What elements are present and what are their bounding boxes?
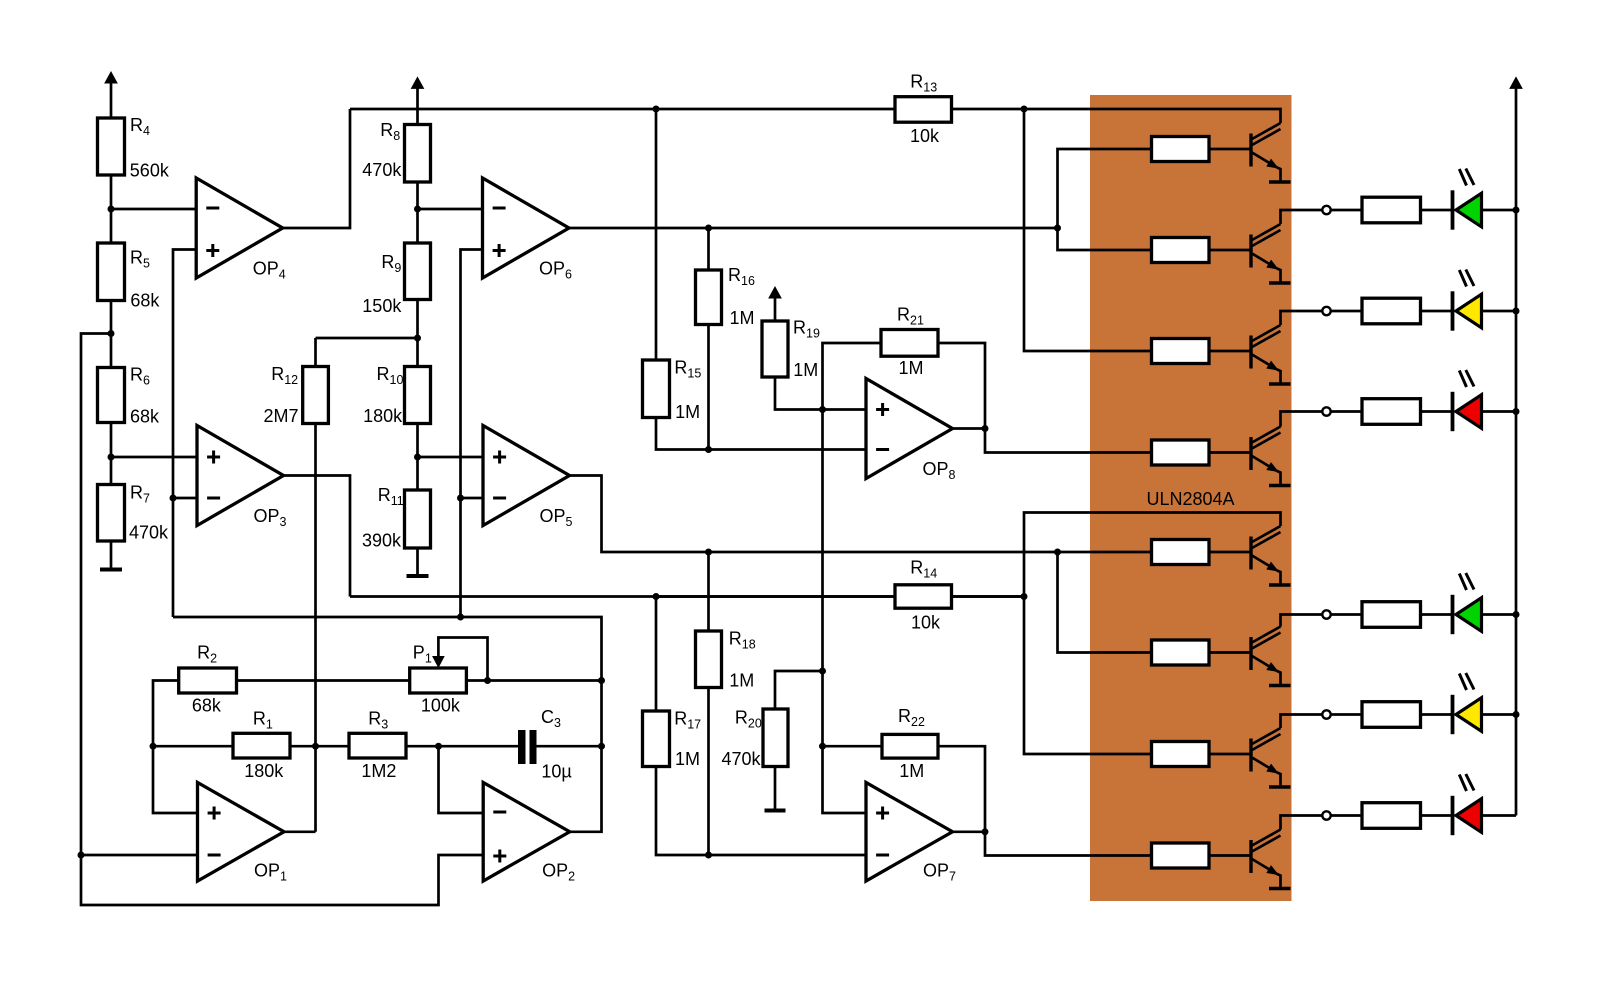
wire OP6 output to ULN inputs 1-2 [569,227,1058,230]
wire R18 top lead [707,552,710,631]
resistor R12 [264,364,329,426]
wire resistor to LED 6 [1421,814,1452,817]
svg-text:2M7: 2M7 [264,406,299,426]
power supply arrow above R8 [412,77,424,124]
node P1 wiper tie [484,677,491,684]
node C3 left junction [435,743,442,750]
svg-text:180k: 180k [363,406,403,426]
wire OP1 inverting input [81,854,198,857]
svg-text:68k: 68k [192,695,222,715]
ground below R20 [765,809,786,813]
wire pin to series resistor (LED 5) [1331,713,1362,716]
wire to Q2 base [1058,228,1152,250]
base resistor of Q5 [1152,540,1210,565]
wire LED 5 anode to supply rail [1482,713,1517,716]
wire OP5 output to ULN input 5 [570,476,1152,553]
svg-text:470k: 470k [129,523,169,543]
wire to Q1 base [1058,149,1152,228]
svg-text:470k: 470k [362,160,402,180]
wire pin to series resistor (LED 6) [1331,814,1362,817]
wire Q4 base lead [1209,451,1250,454]
svg-text:10k: 10k [911,613,941,633]
transistor Q8 (darlington) with emitter return [1251,830,1291,889]
wire R12 bottom / OP1 output riser [314,424,317,832]
wire R2 left to OP1 non-inverting input [153,681,198,814]
resistor R2 [179,643,237,716]
node R14 right junction [1021,593,1028,600]
wire R22 left lead [823,745,883,748]
wire OP3 non-inverting input [111,456,197,459]
wire resistor to LED 2 [1421,310,1452,313]
wire Q8 base lead [1209,854,1250,857]
LED 5 (yellow) [1453,673,1482,734]
svg-text:390k: 390k [362,530,402,550]
wire R13 junction down to Q3 base [1024,109,1152,351]
wire R21 right to OP8 output [938,343,985,429]
node R1/R3/OP1out junction [312,743,319,750]
wire resistor to LED 3 [1421,410,1452,413]
op-amp OP6 [483,178,573,282]
wire OP7 output [953,830,986,833]
wire R12 top to R9/R10 junction [316,337,418,340]
svg-text:1M2: 1M2 [361,761,396,781]
resistor R9 [362,243,430,316]
svg-text:470k: 470k [722,749,762,769]
svg-text:1M: 1M [730,308,755,328]
wire resistor to LED 1 [1421,209,1452,212]
series resistor for LED 5 [1362,702,1421,728]
node OP5 output split junction [1054,549,1061,556]
wire R4 to R5 [110,175,113,243]
supply rail right with arrow [1510,77,1522,815]
wire LED 3 anode to supply rail [1482,410,1517,413]
series resistor for LED 1 [1362,197,1421,223]
LED 4 (green) [1453,573,1482,634]
resistor R15 [643,358,702,422]
wire R3 left [316,745,350,748]
node supply rail / LED 3 [1513,408,1520,415]
transistor Q3 (darlington) with emitter return [1251,325,1291,384]
node R8/R9 junction [414,206,421,213]
node R9/R10 junction [414,335,421,342]
ground below R7 [100,568,122,572]
wire R6 to R7 [110,423,113,485]
resistor R5 [98,243,161,311]
node supply rail / LED 5 [1513,711,1520,718]
wire P1 right terminal [466,679,601,682]
wire OP2 inverting input riser [439,746,484,813]
transistor Q1 (darlington) with emitter return [1251,123,1291,182]
svg-text:100k: 100k [421,695,461,715]
resistor R21 [881,305,938,379]
svg-text:1M: 1M [729,671,754,691]
resistor R7 [98,483,170,543]
base resistor of Q8 [1152,843,1210,868]
wire LED 1 anode to supply rail [1482,209,1517,212]
op-amp OP5 [483,426,573,530]
node R20 top junction [819,668,826,675]
wire R10 to R11 [416,424,419,491]
resistor R22 [882,706,938,781]
wire R12 top lead [314,338,317,367]
node R17 tap [653,593,660,600]
wire divider riser OP8+ to OP7+ [823,410,867,814]
wire OP6 inverting input [418,208,483,211]
resistor R17 [643,709,702,769]
wire R7 to ground [110,541,113,568]
wire LED 2 anode to supply rail [1482,310,1517,313]
wire R17 top lead [655,597,658,712]
node OP7 output junction [982,828,989,835]
LED 1 (green) [1453,169,1482,230]
resistor R16 [696,265,755,328]
svg-text:68k: 68k [130,406,160,426]
op-amp OP8 [866,379,956,483]
resistor R4 [98,115,170,181]
wire R2 right to P1 [237,679,410,682]
node R13 right junction [1021,106,1028,113]
svg-text:150k: 150k [362,296,402,316]
wire OP8 output [953,427,986,430]
wire R22 right to OP7 output [938,746,985,832]
wire pin to series resistor (LED 4) [1331,613,1362,616]
resistor R6 [98,365,161,427]
wire Q2 base lead [1209,249,1250,252]
wire Q5 base lead [1209,551,1250,554]
svg-text:560k: 560k [130,161,170,181]
P1 wiper arrow [433,638,488,681]
wire OP3 output rail east to R14 [350,595,1024,598]
wire R20 to ground [774,767,777,809]
base resistor of Q6 [1152,640,1210,665]
series resistor for LED 2 [1362,298,1421,324]
node R1 left junction [150,743,157,750]
output pin circle (LED 2) [1322,307,1330,315]
base resistor of Q4 [1152,440,1210,465]
svg-text:1M: 1M [793,360,818,380]
node OP5 inverting tap on signal net [457,495,464,502]
resistor R11 [362,485,431,550]
wire top rail east of R13 [952,108,1025,111]
node OP3 inverting tap on signal net [170,495,177,502]
svg-text:ULN2804A: ULN2804A [1147,489,1235,509]
wire R5 to R6 [110,301,113,368]
resistor R8 [362,120,430,182]
wire R13 junction to Q1 collector [1024,109,1281,123]
base resistor of Q7 [1152,742,1210,767]
resistor R1 [233,708,290,781]
wire R8 to R9 [416,182,419,243]
wire OP4 inverting input [111,208,196,211]
wire R3 right to C3 [406,745,518,748]
wire top rail west of R13 [350,108,895,111]
transistor Q4 (darlington) with emitter return [1251,427,1291,486]
resistor R19 [762,318,820,381]
resistor R20 [722,707,789,769]
output pin circle (LED 6) [1322,811,1330,819]
resistor R18 [696,628,756,690]
wire LED 4 anode to supply rail [1482,613,1517,616]
node supply rail / LED 4 [1513,611,1520,618]
LED 2 (yellow) [1453,270,1482,331]
node R16 tap on OP6 output [705,225,712,232]
series resistor for LED 6 [1362,803,1421,829]
svg-text:10µ: 10µ [541,761,571,781]
op-amp OP1 [198,783,288,884]
svg-text:1M: 1M [675,402,700,422]
node R6/R7 junction [108,454,115,461]
node signal net / P1 line [598,677,605,684]
wire R15 top lead [655,109,658,360]
svg-text:1M: 1M [899,358,924,378]
node signal net / OP6+ riser [457,614,464,621]
node R18 tap on OP5 output [705,549,712,556]
op-amp OP7 [866,783,956,884]
wire Q collector to output pin (LED 4) [1281,615,1323,627]
wire OP6 non-inverting input to signal net [461,250,483,618]
wire OP8 output to Q4 base [985,429,1152,453]
svg-text:1M: 1M [899,761,924,781]
transistor Q6 (darlington) with emitter return [1251,627,1291,686]
transistor Q2 (darlington) with emitter return [1251,224,1291,283]
node OP8 non-inverting junction [819,406,826,413]
svg-text:180k: 180k [244,761,284,781]
wire OP1 output [284,830,316,833]
node OP8 output junction [982,425,989,432]
svg-text:68k: 68k [130,291,160,311]
wire R15 bottom to OP8 inverting line [656,418,866,450]
resistor R3 [349,708,406,781]
wire R18 bottom lead [707,688,710,856]
node signal net / C3 line [598,743,605,750]
wire R14 left lead [656,595,895,598]
base resistor of Q2 [1152,238,1210,263]
wire R16 bottom lead [707,325,710,450]
node R18 bottom junction [705,852,712,859]
wire Q collector to output pin (LED 3) [1281,412,1323,427]
op-amp OP3 [197,426,287,530]
wire R9 to R10 [416,300,419,367]
output pin circle (LED 4) [1322,610,1330,618]
wire OP4 non-inverting input to signal net [173,250,196,618]
wire reference net from R5/R6 junction to bottom rail [81,334,483,906]
LED 6 (red) [1453,774,1482,835]
node R16 bottom junction [705,446,712,453]
wire R20 top lead [775,671,823,709]
LED 3 (red) [1453,370,1482,431]
wire Q collector to output pin (LED 6) [1281,816,1323,830]
wire OP3 output down to comparator rail [284,476,351,597]
resistor R10 [363,364,430,426]
wire OP4 output up to top rail [283,109,350,228]
wire R21 left lead [823,343,882,410]
wire to Q6 base [1058,552,1152,653]
node left rail at OP1- line [78,852,85,859]
op-amp OP4 [196,178,286,282]
wire R1 left [153,745,233,748]
power arrow above R19 [769,287,781,321]
wire signal net horizontal run to OP2 output [173,617,602,832]
svg-text:10k: 10k [910,126,940,146]
node R22 left junction [819,743,826,750]
wire resistor to LED 4 [1421,613,1452,616]
wire OP5 inverting input [461,497,484,500]
node supply rail / LED 2 [1513,308,1520,315]
node R10/R11 junction [414,454,421,461]
wire Q5 collector to Q7 base feedback [1024,513,1281,755]
wire R19 bottom to OP8+ [775,377,866,410]
wire OP7 output to Q8 base [985,832,1152,856]
series resistor for LED 3 [1362,399,1421,425]
wire R11 to ground [416,548,419,574]
wire Q collector to output pin (LED 2) [1281,311,1323,325]
wire resistor to LED 5 [1421,713,1452,716]
wire C3 right [537,745,602,748]
wire R14 right lead [952,595,1025,598]
wire OP3 inverting input [173,497,197,500]
svg-text:1M: 1M [675,749,700,769]
potentiometer P1 [410,643,467,716]
node OP6 output split junction [1054,225,1061,232]
node R5/R6 junction [108,330,115,337]
node R15 tap on top rail [653,106,660,113]
ground below R11 [407,574,429,578]
wire pin to series resistor (LED 3) [1331,410,1362,413]
resistor R14 [895,558,952,633]
wire pin to series resistor (LED 2) [1331,310,1362,313]
transistor Q7 (darlington) with emitter return [1251,728,1291,787]
wire pin to series resistor (LED 1) [1331,209,1362,212]
wire Q6 base lead [1209,651,1250,654]
wire R1 right [290,745,316,748]
wire R16 top lead [707,228,710,270]
node supply rail / LED 1 [1513,207,1520,214]
op-amp OP2 [483,783,575,884]
capacitor C3 [518,707,572,781]
wire LED 6 anode to supply rail [1482,814,1517,817]
base resistor of Q3 [1152,339,1210,364]
output pin circle (LED 5) [1322,710,1330,718]
output pin circle (LED 1) [1322,206,1330,214]
transistor Q5 (darlington) with emitter return [1251,526,1291,585]
series resistor for LED 4 [1362,602,1421,628]
power supply arrow above R4 [105,72,117,118]
wire Q7 base lead [1209,753,1250,756]
node R4/R5 junction [108,206,115,213]
ULN2804A driver IC highlighted block [1090,95,1292,901]
output pin circle (LED 3) [1322,407,1330,415]
wire Q collector to output pin (LED 1) [1281,210,1323,224]
wire Q1 base lead [1209,148,1250,151]
wire OP5 non-inverting input [418,456,484,459]
wire Q3 base lead [1209,350,1250,353]
wire Q collector to output pin (LED 5) [1281,715,1323,729]
resistor R13 [895,72,952,147]
label ULN2804A [1147,489,1235,509]
base resistor of Q1 [1152,137,1210,162]
wire R17 bottom to OP7 inverting line [656,767,866,856]
